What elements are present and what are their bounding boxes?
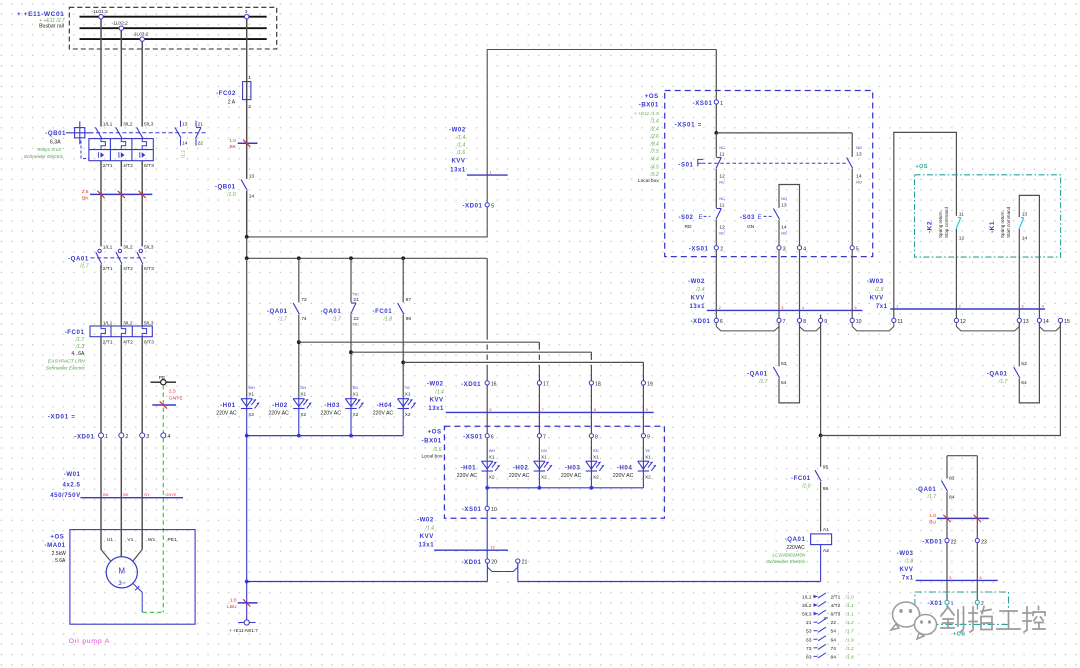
N wire down from lamp bus — [246, 436, 248, 582]
svg-text:12: 12 — [959, 235, 965, 241]
svg-text:64: 64 — [1021, 380, 1027, 386]
svg-text:64: 64 — [831, 637, 837, 643]
svg-text:2/T1: 2/T1 — [103, 266, 113, 272]
svg-text:1: 1 — [105, 434, 108, 440]
svg-text:6,3A: 6,3A — [50, 139, 61, 145]
svg-text:220V AC: 220V AC — [561, 473, 582, 479]
external connector box — [915, 592, 1009, 624]
watermark text jian zhi gong kong — [941, 607, 964, 632]
svg-text:7: 7 — [543, 434, 546, 440]
svg-text:63: 63 — [1021, 361, 1027, 367]
svg-text:X1: X1 — [405, 391, 411, 396]
svg-text:2 A: 2 A — [228, 99, 236, 105]
svg-text:84: 84 — [949, 494, 955, 500]
tap stubs — [100, 19, 102, 27]
svg-text:RD: RD — [593, 449, 599, 453]
svg-text:-H04: -H04 — [377, 402, 393, 409]
svg-text:53: 53 — [806, 629, 812, 635]
wire S01 to S02 — [715, 169, 717, 208]
svg-text:/1.0: /1.0 — [226, 192, 236, 198]
svg-text:6/T3: 6/T3 — [144, 163, 154, 169]
svg-text:220V AC: 220V AC — [613, 473, 634, 479]
wire L2 below QB01 — [120, 161, 122, 247]
svg-text:7x1: 7x1 — [902, 575, 914, 581]
svg-text:13x1: 13x1 — [419, 543, 435, 549]
svg-text:-H03: -H03 — [324, 402, 340, 409]
svg-text:2.5: 2.5 — [82, 189, 89, 195]
wire XD01:13 up to K1 — [1018, 229, 1020, 318]
svg-text:V1: V1 — [127, 537, 133, 543]
svg-text:2: 2 — [126, 434, 129, 440]
svg-text:220V AC: 220V AC — [321, 411, 342, 417]
svg-text:5: 5 — [856, 246, 859, 252]
svg-text:/8.4: /8.4 — [649, 142, 659, 148]
svg-text:220V AC: 220V AC — [457, 473, 478, 479]
svg-text:3/L2: 3/L2 — [123, 121, 133, 127]
wire L3 QA01 to FC01 — [141, 264, 143, 326]
svg-text:-XD01: -XD01 — [461, 559, 481, 566]
svg-text:22: 22 — [951, 539, 957, 545]
svg-text:KVV: KVV — [900, 567, 914, 573]
svg-text:5/L3: 5/L3 — [144, 121, 154, 127]
svg-text:3~: 3~ — [118, 580, 126, 587]
svg-text:X1: X1 — [541, 454, 547, 459]
S03 branch wires — [779, 185, 800, 246]
svg-text:/1.7: /1.7 — [277, 316, 287, 322]
svg-text:1: 1 — [248, 75, 251, 81]
wire L2 QA01 to FC01 — [120, 264, 122, 326]
svg-text:73: 73 — [301, 297, 307, 303]
svg-text:NC: NC — [719, 180, 725, 184]
svg-text:LC1N0901M5N: LC1N0901M5N — [772, 552, 806, 558]
local box lamp common bus — [487, 487, 643, 489]
svg-text:A1: A1 — [823, 527, 829, 533]
busbar enclosure +E11-WC01 — [69, 7, 276, 49]
svg-text:/1.7: /1.7 — [75, 337, 85, 343]
svg-text:-H01: -H01 — [220, 402, 236, 409]
svg-text:KVV: KVV — [420, 534, 434, 540]
wire junction to S01 NO branch — [716, 132, 852, 134]
svg-text:9: 9 — [824, 319, 827, 325]
svg-text:21: 21 — [353, 297, 359, 303]
svg-text:12: 12 — [960, 319, 966, 325]
svg-text:7: 7 — [783, 319, 786, 325]
svg-text:1: 1 — [896, 303, 898, 308]
svg-text:220V AC: 220V AC — [509, 473, 530, 479]
signal branch top — [947, 455, 977, 457]
svg-text:17: 17 — [543, 382, 549, 388]
svg-text:4...6A: 4...6A — [71, 351, 85, 357]
svg-text:2: 2 — [720, 246, 723, 252]
svg-text:-QA01: -QA01 — [321, 308, 342, 315]
svg-text:/4.4: /4.4 — [649, 157, 659, 163]
svg-text:2/T1: 2/T1 — [831, 595, 841, 601]
svg-text:Busbar rail: Busbar rail — [39, 24, 64, 30]
svg-text:1/L1: 1/L1 — [103, 121, 113, 127]
svg-text:8: 8 — [594, 407, 596, 412]
svg-text:13: 13 — [1022, 212, 1028, 218]
svg-text:3: 3 — [783, 246, 786, 252]
svg-text:4x2.5: 4x2.5 — [63, 482, 81, 489]
svg-text:X2: X2 — [300, 412, 306, 417]
svg-text:/5.2: /5.2 — [649, 172, 659, 178]
wire H03 branch upper — [350, 258, 352, 302]
wire XD01 to motor L3 — [141, 438, 143, 550]
svg-text:X2: X2 — [541, 475, 547, 480]
wire S01 NO to XS01:5 — [851, 169, 853, 246]
svg-text:NO: NO — [781, 231, 787, 235]
svg-text:GN: GN — [747, 224, 755, 230]
svg-text:6: 6 — [491, 434, 494, 440]
svg-text:13x1: 13x1 — [689, 304, 705, 310]
wire L3 drop — [141, 41, 143, 126]
svg-text:/1.2: /1.2 — [845, 646, 854, 652]
svg-text:/1.7: /1.7 — [758, 379, 768, 385]
wire junction to XD01:15 branch — [821, 323, 1061, 436]
svg-text:NC: NC — [719, 231, 725, 235]
svg-text:-K2: -K2 — [927, 221, 934, 233]
svg-text:+OS: +OS — [50, 533, 64, 540]
panel lamp common bus — [247, 435, 404, 437]
wire XD01:20 to N bus — [486, 563, 488, 581]
wire L3 below QB01 — [141, 161, 143, 247]
svg-text:-W03: -W03 — [897, 550, 914, 557]
lamp feed bus — [246, 237, 248, 258]
wire L1 QA01 to FC01 — [100, 264, 102, 326]
svg-text:1/L1: 1/L1 — [103, 245, 113, 251]
svg-text:4/T2: 4/T2 — [123, 339, 133, 345]
N bus right — [518, 581, 821, 583]
svg-text:WH: WH — [489, 449, 496, 453]
svg-text:-W02: -W02 — [427, 381, 444, 388]
wire L1 drop — [100, 19, 102, 127]
svg-text:+OS: +OS — [428, 429, 442, 436]
svg-text:-MA01: -MA01 — [45, 542, 66, 549]
busbar rail L3 — [80, 38, 267, 40]
wire H02 branch upper — [298, 258, 300, 302]
motor lead V1 — [120, 556, 122, 558]
svg-text:WH: WH — [248, 386, 255, 390]
svg-text:-FC01: -FC01 — [791, 475, 811, 482]
svg-text:1.0: 1.0 — [929, 513, 936, 519]
jumper XD01 14-15 — [1039, 323, 1060, 331]
wire 54 to XD01:8 — [779, 323, 800, 403]
svg-text:-XD01 =: -XD01 = — [48, 413, 76, 420]
svg-text:-QA01: -QA01 — [747, 371, 768, 378]
svg-text:+ +E11-N01:7: + +E11-N01:7 — [229, 628, 258, 633]
jumper XD01 6-7 — [716, 323, 779, 331]
wire coil A2 to N bus — [820, 545, 822, 582]
wire XD01:9 down — [820, 323, 822, 436]
svg-text:6: 6 — [489, 407, 491, 412]
PE wire to motor — [162, 438, 164, 612]
svg-text:KVV: KVV — [452, 158, 466, 164]
svg-text:PE1: PE1 — [168, 537, 178, 543]
svg-text:-H02: -H02 — [272, 402, 288, 409]
svg-text:E: E — [699, 214, 703, 221]
wire to XD01:17 — [299, 341, 540, 343]
svg-text:/1.3: /1.3 — [75, 344, 85, 350]
svg-text:/1.1: /1.1 — [845, 612, 854, 618]
jumper XD01 10-11 — [852, 323, 894, 331]
svg-text:X1: X1 — [353, 391, 359, 396]
svg-text:5.6A: 5.6A — [55, 558, 66, 564]
svg-text:19: 19 — [647, 382, 653, 388]
svg-text:+OS: +OS — [953, 632, 965, 638]
tap 3 — [245, 15, 249, 19]
svg-text:-S03: -S03 — [740, 214, 755, 221]
svg-text:13x1: 13x1 — [450, 168, 466, 174]
svg-text:Local box: Local box — [421, 453, 442, 459]
svg-text:BK: BK — [123, 492, 129, 497]
svg-text:8: 8 — [595, 434, 598, 440]
svg-text:73: 73 — [806, 646, 812, 652]
svg-text:15: 15 — [1064, 319, 1070, 325]
svg-text:GNYE: GNYE — [169, 395, 184, 401]
svg-text:16: 16 — [491, 382, 497, 388]
svg-text:BN: BN — [103, 492, 109, 497]
svg-text:/1.1: /1.1 — [845, 603, 854, 609]
wire L1 FC01 to XD01 — [100, 337, 102, 433]
svg-text:12: 12 — [719, 224, 725, 230]
svg-text:-QB01: -QB01 — [215, 184, 236, 191]
svg-text:/1.8: /1.8 — [874, 287, 884, 293]
svg-text:11: 11 — [719, 202, 724, 208]
svg-text:8: 8 — [803, 319, 806, 325]
svg-text:-QA01: -QA01 — [68, 255, 89, 262]
svg-text:2/T1: 2/T1 — [103, 339, 113, 345]
wire 96 to coil A1 — [820, 482, 822, 532]
svg-text:10: 10 — [491, 507, 497, 513]
wire to XD01:16 — [486, 258, 488, 339]
svg-text:6/T3: 6/T3 — [144, 339, 154, 345]
wire below QB01 aux — [246, 191, 248, 237]
PE wire GNYE dashed — [162, 385, 164, 433]
wire tap3 drop — [246, 19, 248, 179]
svg-text:X1: X1 — [248, 391, 254, 396]
svg-text:RD: RD — [685, 224, 693, 230]
svg-text:450/750V: 450/750V — [50, 492, 81, 499]
svg-text:/1.8: /1.8 — [383, 316, 393, 322]
svg-text:NO: NO — [856, 146, 862, 150]
svg-text:-FC02: -FC02 — [216, 90, 236, 97]
motor PE link — [133, 584, 142, 613]
busbar rail L1 — [80, 16, 267, 18]
svg-text:-H02: -H02 — [513, 464, 529, 471]
svg-text:KVV: KVV — [691, 296, 705, 302]
svg-text:83: 83 — [806, 654, 812, 660]
svg-text:Local box: Local box — [638, 178, 659, 184]
svg-text:W1: W1 — [148, 537, 156, 543]
svg-text:/1.7: /1.7 — [927, 494, 937, 500]
svg-text:NC: NC — [353, 292, 359, 296]
wire N to connection point — [246, 582, 248, 621]
wire XD01 to motor L2 — [120, 438, 122, 557]
K1 branch wires — [1019, 195, 1039, 318]
wire lamp bus to XS01:10 — [486, 488, 488, 507]
svg-text:NC: NC — [719, 197, 725, 201]
wire XD01:11 up and over — [894, 132, 957, 318]
wire XD01 to motor L1 — [100, 438, 102, 550]
svg-text:A2: A2 — [823, 548, 829, 554]
svg-text:14: 14 — [249, 193, 255, 199]
svg-text:6/T3: 6/T3 — [144, 266, 154, 272]
svg-text:/1.0: /1.0 — [801, 483, 811, 489]
svg-text:7: 7 — [542, 407, 544, 412]
svg-text:Spring return: Spring return — [938, 211, 943, 238]
svg-text:/1.7: /1.7 — [845, 629, 854, 635]
svg-text:-XD01: -XD01 — [462, 203, 482, 210]
svg-text:NO: NO — [856, 180, 862, 184]
wire junction to FC01:95 — [820, 436, 822, 467]
svg-text:-W02: -W02 — [688, 278, 705, 285]
svg-text:20: 20 — [491, 560, 497, 566]
svg-text:-QA01: -QA01 — [987, 371, 1008, 378]
svg-text:13: 13 — [856, 151, 862, 157]
svg-text:11: 11 — [959, 212, 964, 218]
watermark wechat icon — [891, 602, 937, 639]
svg-text:9: 9 — [647, 434, 650, 440]
wire XD01:13 down — [1018, 323, 1020, 367]
tap -1L02:2 — [119, 26, 123, 30]
svg-text:7x1: 7x1 — [876, 304, 888, 310]
svg-text:3: 3 — [245, 9, 248, 15]
wire top line to XS01:1 — [715, 50, 717, 100]
svg-text:83: 83 — [949, 475, 955, 481]
svg-text:LBU: LBU — [227, 604, 237, 610]
svg-text:5: 5 — [949, 575, 951, 580]
svg-text:12: 12 — [719, 174, 725, 180]
svg-text:/1.4: /1.4 — [456, 135, 466, 141]
svg-text:1: 1 — [490, 170, 492, 175]
svg-text:X1: X1 — [489, 454, 495, 459]
svg-text:/1.6: /1.6 — [432, 447, 442, 453]
svg-text:Schneider Electric: Schneider Electric — [24, 154, 64, 160]
svg-text:6: 6 — [720, 319, 723, 325]
svg-text:4/T2: 4/T2 — [123, 266, 133, 272]
wire L1 below QB01 — [100, 161, 102, 247]
svg-text:53: 53 — [781, 361, 787, 367]
svg-text:6/T3: 6/T3 — [831, 612, 841, 618]
wire L2 drop — [120, 30, 122, 126]
svg-text:14: 14 — [781, 224, 787, 230]
svg-text:2.5kW: 2.5kW — [52, 551, 66, 557]
svg-text:X1: X1 — [300, 391, 306, 396]
svg-text:-S02: -S02 — [678, 214, 693, 221]
svg-text:/2.4: /2.4 — [649, 126, 659, 132]
QB01 handle — [66, 132, 94, 134]
svg-text:-H04: -H04 — [617, 464, 633, 471]
svg-text:5: 5 — [491, 204, 494, 210]
wire S02 to XS01:2 — [715, 220, 717, 246]
svg-text:11: 11 — [719, 151, 724, 157]
tap -1L01:2 — [99, 15, 103, 19]
svg-text:Schneider Electric: Schneider Electric — [767, 559, 806, 565]
svg-text:-1L01:2: -1L01:2 — [92, 9, 109, 15]
wire H04 branch lower — [402, 315, 404, 396]
wire XD01:7 down — [778, 323, 780, 367]
svg-text:-X01: -X01 — [927, 600, 942, 607]
svg-text:1: 1 — [951, 601, 954, 607]
svg-text:1.0: 1.0 — [230, 597, 237, 603]
svg-text:X2: X2 — [405, 412, 411, 417]
svg-text:Oil pump A: Oil pump A — [69, 638, 110, 645]
svg-text:YE: YE — [405, 386, 411, 390]
svg-text:2: 2 — [719, 305, 721, 310]
wire 64 to XD01:14 — [1019, 323, 1039, 403]
svg-text:YE: YE — [645, 449, 651, 453]
svg-text:98: 98 — [406, 316, 412, 322]
svg-text:/1.8: /1.8 — [904, 558, 914, 564]
svg-text:-XS01: -XS01 — [462, 506, 482, 513]
svg-text:-K1: -K1 — [989, 221, 996, 233]
svg-text:54: 54 — [831, 629, 837, 635]
svg-text:3/L2: 3/L2 — [123, 245, 133, 251]
svg-text:74: 74 — [301, 316, 307, 322]
svg-text:-XD01: -XD01 — [461, 381, 481, 388]
svg-text:/2.6: /2.6 — [649, 134, 659, 140]
wire H03 branch lower — [350, 315, 352, 396]
svg-text:-QA01: -QA01 — [916, 486, 937, 493]
svg-text:/1.4: /1.4 — [434, 390, 444, 396]
svg-text:4: 4 — [168, 434, 171, 440]
svg-text:X2: X2 — [645, 475, 651, 480]
wire XS01:1 to junction — [715, 104, 717, 133]
wire K2 to XD01:12 — [955, 229, 957, 318]
svg-text:/1.2: /1.2 — [845, 620, 854, 626]
svg-text:4/T2: 4/T2 — [123, 163, 133, 169]
svg-text:97: 97 — [406, 297, 412, 303]
svg-text:5: 5 — [854, 305, 856, 310]
svg-text:-XS01: -XS01 — [463, 434, 483, 441]
svg-text:21: 21 — [522, 560, 528, 566]
svg-text:2.5: 2.5 — [169, 389, 176, 395]
svg-text:220V AC: 220V AC — [216, 411, 237, 417]
svg-text:TeSys GV2: TeSys GV2 — [37, 147, 62, 153]
svg-text:-H03: -H03 — [565, 464, 581, 471]
connection point +E11-N01:7 — [238, 622, 255, 624]
busbar rail L2 — [80, 27, 267, 29]
control wire upper — [247, 50, 717, 237]
svg-text:/1.4: /1.4 — [695, 287, 705, 293]
svg-text:4: 4 — [803, 246, 806, 252]
svg-text:18: 18 — [595, 382, 601, 388]
svg-text:E: E — [758, 214, 762, 221]
svg-text:X2: X2 — [353, 412, 359, 417]
svg-text:-W01: -W01 — [64, 471, 81, 478]
svg-text:/1.6: /1.6 — [456, 150, 466, 156]
svg-text:1/L1: 1/L1 — [802, 595, 812, 601]
svg-text:13x1: 13x1 — [428, 406, 444, 412]
svg-text:-S01: -S01 — [678, 162, 693, 169]
svg-text:-FC01: -FC01 — [373, 308, 393, 315]
svg-text:BK: BK — [82, 196, 89, 202]
svg-text:5/L3: 5/L3 — [144, 245, 154, 251]
svg-text:74: 74 — [831, 646, 837, 652]
svg-text:GN: GN — [300, 386, 306, 390]
svg-text:-QA01: -QA01 — [267, 308, 288, 315]
motor lead W1 — [133, 550, 143, 562]
svg-text:NC: NC — [353, 323, 359, 327]
stub above XD01:9 — [820, 315, 822, 319]
svg-text:14: 14 — [1022, 235, 1028, 241]
wire to XD01:19 — [403, 361, 643, 363]
jumper XD01 8-9 — [800, 323, 821, 331]
svg-text:13: 13 — [182, 121, 188, 127]
svg-text:5/L3: 5/L3 — [802, 612, 812, 618]
svg-text:/1.4: /1.4 — [456, 142, 466, 148]
svg-text:84: 84 — [831, 654, 837, 660]
